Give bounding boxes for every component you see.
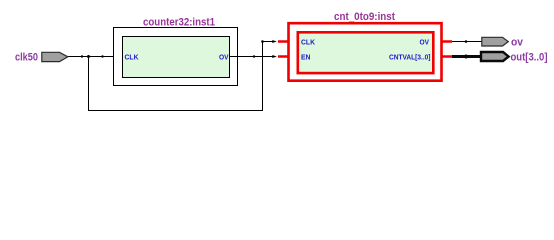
svg-text:cnt_0to9:inst: cnt_0to9:inst (334, 11, 395, 23)
svg-text:clk50: clk50 (15, 52, 38, 64)
svg-text:counter32:inst1: counter32:inst1 (143, 17, 215, 29)
svg-text:OV: OV (420, 37, 430, 46)
svg-text:OV: OV (219, 52, 229, 61)
svg-text:CNTVAL[3..0]: CNTVAL[3..0] (389, 52, 431, 61)
svg-text:ov: ov (511, 37, 524, 49)
svg-text:CLK: CLK (125, 52, 140, 61)
svg-text:out[3..0]: out[3..0] (511, 52, 548, 64)
svg-text:CLK: CLK (301, 37, 316, 46)
svg-text:EN: EN (301, 52, 311, 61)
